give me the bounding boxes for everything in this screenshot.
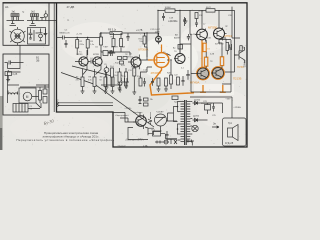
svg-text:Rт: Rт	[76, 77, 78, 79]
switch transistor T10	[133, 112, 146, 129]
orange emitter stub 2	[220, 85, 226, 92]
svg-text:«220В»: «220В»	[156, 111, 164, 113]
electrolytic C24	[205, 105, 211, 111]
motor housing	[19, 88, 36, 103]
node wire to FET gate	[139, 33, 148, 60]
main frame	[3, 3, 248, 147]
ground R6	[93, 91, 97, 93]
ground (mid2)	[124, 86, 128, 88]
driver transistor T5	[213, 28, 225, 41]
svg-text:«Электрофон»: «Электрофон»	[115, 114, 130, 117]
svg-text:1,5к: 1,5к	[90, 44, 94, 46]
ground (mid1)	[105, 87, 109, 89]
svg-text:47к: 47к	[76, 79, 79, 81]
svg-text:«127В»: «127В»	[125, 108, 133, 110]
component cluster mid-right	[177, 77, 180, 85]
bus arrows	[56, 101, 59, 106]
wire (box2 inner)	[8, 58, 24, 69]
resistor R (box2)	[39, 91, 42, 101]
resistor R8	[111, 77, 114, 87]
wire (top rail drops)	[158, 10, 235, 53]
component cluster (x134 bottom)	[132, 80, 136, 94]
wire (x147 feed)	[143, 36, 146, 44]
wire (upper net)	[100, 33, 102, 37]
power transformer Tr1	[177, 100, 193, 146]
svg-text:R9 5,1к: R9 5,1к	[108, 28, 117, 31]
block A1 box (EPU pickup unit)	[3, 3, 49, 46]
capacitor C25	[212, 103, 215, 112]
resistor R3	[86, 40, 89, 49]
ground (box1)	[44, 29, 48, 36]
svg-text:К2Т 4ОМ: К2Т 4ОМ	[215, 43, 224, 45]
svg-text:0,5А: 0,5А	[143, 145, 148, 148]
fuse lamp	[192, 125, 198, 131]
resistor R4a	[112, 39, 115, 47]
ground (box2 right)	[36, 85, 49, 108]
wire (mid bottom)	[101, 75, 122, 87]
contact block P2a	[103, 51, 108, 56]
volume pot R1	[57, 37, 63, 39]
capacitor C10	[122, 78, 129, 86]
svg-text:МП39: МП39	[77, 54, 84, 56]
capacitor C26	[166, 131, 169, 139]
wire (mid net 2)	[134, 65, 152, 78]
ground (box2)	[6, 80, 10, 82]
capacitor C22	[186, 70, 189, 80]
svg-text:С12 0,047: С12 0,047	[150, 29, 161, 31]
svg-text:1ГД-28: 1ГД-28	[225, 141, 234, 145]
svg-text:3,3к: 3,3к	[88, 79, 92, 81]
svg-text:220к: 220к	[80, 44, 84, 46]
diode bridge marks	[189, 102, 191, 109]
transistor T2	[93, 54, 102, 70]
wire bottom net	[128, 127, 177, 140]
pickup Zv1	[7, 11, 25, 25]
svg-text:М: М	[26, 95, 29, 99]
svg-text:+1,7В: +1,7В	[136, 29, 143, 32]
wire (driver base)	[167, 35, 240, 93]
ground R8	[111, 91, 115, 93]
component cluster (FET source)	[139, 78, 142, 86]
ground (right mid 2)	[164, 86, 168, 91]
switch lever line	[72, 66, 112, 76]
inner rect (box1 right cluster)	[28, 28, 46, 45]
resistor R13a	[118, 72, 121, 82]
svg-text:ЗВ: ЗВ	[36, 59, 40, 63]
light patch (highlight wash)	[194, 84, 234, 95]
orange source path	[150, 67, 203, 95]
connector pin	[44, 14, 47, 17]
electrolytic C18	[162, 13, 165, 21]
ground (top mid)	[184, 18, 188, 23]
electrolytic C9	[104, 68, 109, 73]
black resistor R22	[226, 43, 229, 51]
wire power net	[190, 97, 232, 120]
svg-text:+1,7В: +1,7В	[76, 33, 82, 35]
svg-text:«120В»: «120В»	[234, 107, 242, 109]
svg-text:50,0×15В: 50,0×15В	[168, 20, 178, 23]
capacitor C19	[195, 13, 198, 19]
arrow 3v	[212, 126, 219, 128]
resistor R16	[157, 78, 160, 86]
capacitor (x190)	[187, 34, 190, 40]
orange resistor Re1	[220, 57, 223, 66]
resistor R9 (horizontal)	[110, 32, 122, 35]
svg-text:МП39: МП39	[93, 54, 100, 56]
svg-text:МП40А: МП40А	[190, 81, 199, 85]
transistor T1	[75, 51, 88, 69]
orange resistor Rc2	[204, 57, 207, 66]
svg-text:0,2В: 0,2В	[210, 54, 215, 56]
capacitor C13	[151, 78, 154, 86]
orange emitter stub 1	[200, 85, 206, 92]
wire main input	[75, 33, 158, 38]
inner frame line	[53, 3, 55, 112]
svg-text:«ЗВ»: «ЗВ»	[226, 99, 232, 101]
diode VD (top of FET)	[156, 36, 162, 42]
capacitor block BK	[13, 104, 28, 113]
svg-text:А1: А1	[5, 5, 9, 9]
inner box (motor unit)	[8, 72, 21, 103]
wire right area	[222, 7, 240, 38]
resistor R6	[93, 77, 96, 87]
driver transistor T4	[195, 29, 207, 42]
svg-text:«ЗВ»: «ЗВ»	[103, 46, 109, 48]
resistor R10	[100, 37, 103, 45]
small component cluster (mid bottom)	[144, 98, 149, 101]
speaker Gr1	[228, 125, 239, 141]
wire (transformer primary)	[168, 107, 178, 122]
paper background	[0, 0, 250, 150]
resistor R24 (horizontal)	[165, 9, 175, 12]
wire (box2 right)	[20, 87, 49, 109]
resistor R13b	[125, 72, 128, 82]
orange resistor Rc1	[203, 43, 206, 51]
scan smudge left edge	[0, 96, 3, 150]
stator winding	[8, 91, 18, 95]
svg-text:эч: эч	[57, 100, 59, 102]
resistor R2	[76, 40, 79, 49]
svg-text:МП39Б: МП39Б	[208, 25, 217, 29]
switch lever line 2	[61, 73, 154, 128]
svg-text:МБМ-0,05: МБМ-0,05	[60, 32, 71, 34]
ground R7	[104, 91, 108, 93]
resistor R17	[165, 78, 168, 86]
orange wire (drain)	[161, 45, 163, 53]
svg-text:+14В: +14В	[206, 37, 211, 39]
FET VT (KP303) highlighted	[148, 53, 169, 68]
speaker box	[223, 118, 247, 146]
svg-text:Д226Б: Д226Б	[193, 116, 200, 118]
junction dots	[190, 34, 191, 35]
svg-text:АВ2М: АВ2М	[174, 36, 180, 39]
diode VD1	[193, 101, 200, 104]
capacitor C (box1)	[29, 29, 39, 42]
svg-text:620М: 620М	[165, 7, 171, 9]
ground (right mid)	[157, 86, 161, 91]
wire (box1 to box2)	[19, 45, 21, 58]
orange collector rail	[201, 40, 203, 68]
dashes (switch link)	[150, 113, 152, 118]
transistor T3	[127, 54, 141, 70]
resistor R7	[104, 77, 107, 87]
resistor R12	[133, 68, 136, 76]
wire (driver collectors)	[202, 34, 227, 40]
svg-text:МП41: МП41	[225, 34, 233, 38]
wire (mid net)	[101, 52, 130, 56]
svg-text:47-ДВ: 47-ДВ	[67, 5, 75, 9]
top rail	[158, 9, 235, 11]
right edge component 1	[43, 89, 47, 94]
capacitor C (box2 top)	[5, 61, 14, 65]
svg-text:~«Сеть»: ~«Сеть»	[117, 145, 126, 147]
capacitor C8	[108, 50, 114, 54]
svg-text:П213Б: П213Б	[233, 77, 242, 81]
svg-text:Д226Б: Д226Б	[194, 99, 201, 101]
svg-text:Гр1: Гр1	[228, 122, 232, 125]
svg-text:68-П: 68-П	[206, 7, 211, 9]
wire (emitters down)	[83, 50, 101, 75]
resistor R11	[111, 68, 114, 77]
capacitor C3	[88, 60, 95, 64]
fuse Pr1	[153, 132, 161, 137]
motor unit box	[3, 54, 49, 115]
output transistor T6	[196, 67, 209, 80]
capacitor C14	[139, 96, 142, 104]
svg-text:51к: 51к	[140, 41, 143, 43]
resistor R20	[170, 75, 173, 84]
svg-text:Вкл/выкл: Вкл/выкл	[133, 112, 143, 114]
right edge component 2	[43, 97, 47, 104]
svg-text:Переключатель установлен в пол: Переключатель установлен в положение «Эл…	[16, 138, 114, 142]
diode VD2	[193, 118, 200, 121]
svg-text:Ав: Ав	[173, 47, 175, 50]
svg-text:0,25: 0,25	[13, 73, 18, 76]
resistor R13	[120, 39, 123, 47]
mains switch	[155, 111, 167, 131]
component Av	[178, 45, 183, 50]
ground R13a	[118, 88, 122, 90]
electrolytic C (box2)	[5, 72, 12, 76]
bus wires	[59, 103, 113, 106]
svg-text:+4,5В: +4,5В	[198, 11, 204, 13]
ground R5	[81, 91, 85, 93]
svg-text:«Мотор»«ЭПУ»: «Мотор»«ЭПУ»	[125, 139, 145, 142]
capacitor C1	[63, 36, 76, 40]
capacitor C7	[118, 74, 122, 92]
driver transistor T5a (mid)	[174, 54, 185, 64]
wire	[46, 11, 57, 21]
tube socket V1	[10, 27, 26, 45]
wire (power area top)	[113, 112, 177, 135]
output transistor T7	[211, 67, 224, 80]
motor M1	[23, 92, 32, 101]
right column transistor T9	[234, 47, 245, 63]
resistor R5	[81, 77, 84, 87]
switch P2 contacts	[118, 57, 122, 60]
svg-text:МП41: МП41	[127, 56, 134, 58]
resistor R25 (horizontal)	[206, 9, 215, 12]
capacitor C2 (box1)	[39, 29, 46, 41]
svg-text:ГТ403: ГТ403	[243, 60, 247, 68]
pickup Zv2	[27, 11, 49, 25]
capacitor C11	[126, 33, 129, 41]
switch contact arrows	[148, 117, 152, 125]
